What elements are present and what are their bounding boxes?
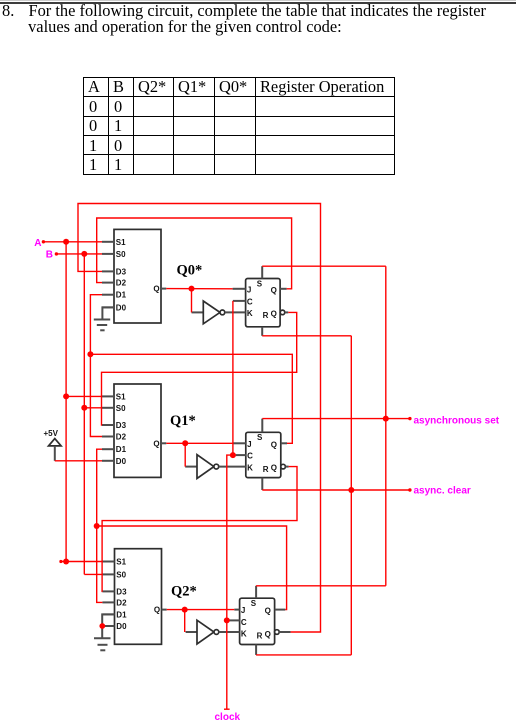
svg-text:S0: S0 <box>116 250 126 259</box>
svg-text:Q: Q <box>271 286 277 295</box>
svg-text:S: S <box>257 279 263 288</box>
svg-text:S1: S1 <box>116 238 126 247</box>
junction Q2*-inverter tap <box>182 607 188 613</box>
wire net B (input B to S0 of U1/U2/U3) <box>55 252 103 574</box>
junction Q2 feedback <box>94 523 100 529</box>
junction B-S0(U1) <box>81 251 87 257</box>
junction clock-C(U6) <box>230 452 236 458</box>
wire Q1-bar (U6 Q-bar down to D3 of U3) <box>102 467 297 592</box>
svg-text:C: C <box>241 618 247 627</box>
wire +5V to D0 of U2 <box>55 460 102 462</box>
svg-text:D0: D0 <box>116 622 127 631</box>
svg-text:Q: Q <box>153 439 159 448</box>
svg-text:C: C <box>247 452 253 461</box>
junction B-S0(U2) <box>81 405 87 411</box>
svg-text:D1: D1 <box>116 445 127 454</box>
JK flip-flop U4 (top, Q0) <box>233 266 289 336</box>
junction clock-C(U8) <box>224 617 230 623</box>
svg-text:D0: D0 <box>116 303 127 312</box>
svg-text:Q0*: Q0* <box>177 263 203 279</box>
inverter U7 (middle stage) <box>185 455 246 479</box>
svg-text:K: K <box>247 463 253 472</box>
junction A-S1(U1) <box>63 239 69 245</box>
ground (mux U3 D1/D0) <box>94 614 115 650</box>
svg-text:D3: D3 <box>116 421 127 430</box>
svg-text:R: R <box>263 311 269 320</box>
wire net Q0* (mux U1 output to J of U4 and inverter U5) <box>166 289 232 313</box>
svg-text:Q: Q <box>154 606 160 615</box>
svg-text:D2: D2 <box>116 433 127 442</box>
wire net Q1* (mux U2 output to J of U6 and inverter U7) <box>166 443 232 466</box>
wire Q0 feedback (U4 Q up and around to D2 of U1) <box>97 218 292 289</box>
svg-text:D2: D2 <box>116 598 127 607</box>
wire net clock (C pins of U4/U6/U8) <box>224 301 236 709</box>
svg-text:D2: D2 <box>116 279 127 288</box>
JK flip-flop U8 (bottom, Q2) <box>229 586 290 655</box>
svg-text:S1: S1 <box>116 392 126 401</box>
JK flip-flop U6 (middle, Q1) <box>233 419 289 490</box>
svg-text:J: J <box>247 285 251 294</box>
svg-text:D3: D3 <box>116 267 127 276</box>
svg-text:asynchronous set: asynchronous set <box>414 415 500 426</box>
wire Q2-bar (U8 Q-bar up to D3 of U1) <box>78 204 321 633</box>
wire Q0-bar (U4 Q-bar down to D3 of U2) <box>102 312 297 425</box>
svg-text:Q1*: Q1* <box>170 413 196 429</box>
inverter U5 (top stage) <box>192 301 246 324</box>
junction async set <box>383 416 389 422</box>
junction A-S1(U3) <box>63 559 69 565</box>
svg-text:Q: Q <box>265 630 271 639</box>
ground (mux U1 D0) <box>94 307 114 330</box>
wire net Q2* (mux U3 output to J of U8 and inverter U9) <box>167 610 235 632</box>
inverter U9 (bottom stage) <box>186 620 240 644</box>
svg-text:S1: S1 <box>116 558 126 567</box>
power +5V <box>44 429 62 461</box>
svg-text:D3: D3 <box>116 587 127 596</box>
multiplexer U1 (4-to-1 mux, top stage) <box>102 229 166 323</box>
junction Q1*-inverter tap <box>182 440 188 446</box>
svg-text:D1: D1 <box>116 610 127 619</box>
junction async clear <box>348 487 354 493</box>
wire net async clear (R pins of U4/U6/U8) <box>256 336 411 655</box>
wire net A (input A to S1 of U1/U2/U3) <box>42 240 103 563</box>
junction Q1 feedback <box>87 351 93 357</box>
junction Q0*-inverter tap <box>189 286 195 292</box>
svg-text:S0: S0 <box>116 570 126 579</box>
svg-text:A: A <box>34 238 41 249</box>
svg-text:S: S <box>257 433 263 442</box>
svg-text:Q: Q <box>271 464 277 473</box>
wire net asynchronous set (S pins of U4/U6/U8) <box>256 266 411 586</box>
wire Q2 feedback (U8 Q to D1 of U2 and D2 of U3) <box>97 449 287 609</box>
svg-text:Q2*: Q2* <box>171 584 197 600</box>
svg-text:K: K <box>247 309 253 318</box>
svg-text:Q: Q <box>265 607 271 616</box>
svg-text:clock: clock <box>215 712 241 723</box>
svg-text:R: R <box>263 465 269 474</box>
svg-text:Q: Q <box>271 309 277 318</box>
svg-text:K: K <box>241 630 247 639</box>
svg-text:Q: Q <box>153 285 159 294</box>
svg-text:R: R <box>257 631 263 640</box>
multiplexer U3 (4-to-1 mux, bottom stage) <box>102 549 166 645</box>
svg-text:B: B <box>46 250 53 261</box>
svg-text:J: J <box>241 606 245 615</box>
svg-text:+5V: +5V <box>44 429 59 438</box>
svg-text:J: J <box>247 440 251 449</box>
svg-text:D0: D0 <box>116 457 127 466</box>
multiplexer U2 (4-to-1 mux, middle stage) <box>102 384 166 477</box>
junction A-S1(U2) <box>63 393 69 399</box>
svg-text:C: C <box>247 297 253 306</box>
svg-text:S0: S0 <box>116 404 126 413</box>
junction mux U3 D0-ground <box>99 623 105 629</box>
svg-text:D1: D1 <box>116 291 127 300</box>
wire Q1 feedback (U6 Q to D1 of U1 and D2 of U2) <box>90 295 292 444</box>
svg-text:Q: Q <box>271 440 277 449</box>
svg-text:S: S <box>251 599 257 608</box>
svg-text:async. clear: async. clear <box>414 485 471 496</box>
